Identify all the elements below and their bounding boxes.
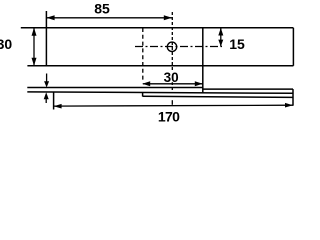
svg-text:170: 170 [158,108,180,124]
thickness down arrowhead [44,81,49,87]
dim 30 bottom line [143,83,203,85]
svg-text:15: 15 [229,36,245,52]
top view bottom edge (with left extension) [27,65,293,67]
dim 30 left down arrowhead [32,58,37,66]
dim 15 up arrowhead [218,28,223,36]
top view left edge (with upper extension line) [45,11,47,66]
dim 85 left arrowhead [46,15,54,20]
hole [167,42,176,51]
side view tab left cap [142,92,144,96]
top view right edge [292,28,294,66]
hidden edge dashed [142,28,144,82]
white backing for label 30 bottom [164,71,180,82]
side view top edge right part [203,88,293,90]
side view mid edge [27,92,293,93]
dim 170 left arrowhead [54,104,62,109]
170 left extension line [53,92,55,109]
thickness dim lower stem [45,99,47,104]
side view tab bottom edge [143,96,293,97]
side view right cap and 170 extension [292,89,294,106]
dim 15 line [220,28,222,46]
dim 170 right arrowhead [285,103,293,108]
dim 30 left line [33,28,35,66]
step edge through both views [202,28,204,93]
svg-text:30: 30 [0,36,12,52]
top view top edge (with left extension) [21,27,294,29]
dim 30 bottom right arrowhead [195,81,203,86]
dim 30 left up arrowhead [32,28,37,36]
dim 170 line [54,104,293,107]
dim 85 line [46,17,172,19]
white backing for label 170 [157,110,179,122]
hole horizontal centerline [135,46,222,48]
dim 85 right arrowhead [164,15,172,20]
thickness dim upper stem [46,74,48,83]
dim 30 bottom left arrowhead [142,81,150,86]
hole vertical centerline [171,12,173,93]
side view top edge left part [27,87,203,89]
dim 15 down arrowhead [218,40,223,47]
svg-text:85: 85 [94,1,110,17]
svg-text:30: 30 [164,70,179,85]
thickness up arrowhead [44,92,49,99]
